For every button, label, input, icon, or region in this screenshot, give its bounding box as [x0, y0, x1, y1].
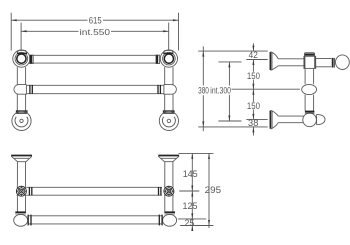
svg-text:125: 125 [183, 201, 198, 212]
svg-text:380: 380 [198, 86, 209, 97]
svg-text:615: 615 [89, 15, 102, 26]
svg-text:25: 25 [185, 218, 195, 229]
svg-text:int.550: int.550 [80, 27, 111, 37]
svg-text:145: 145 [183, 169, 198, 180]
svg-text:150: 150 [247, 71, 260, 82]
svg-text:42: 42 [249, 50, 258, 61]
svg-text:38: 38 [248, 118, 258, 129]
svg-text:int.300: int.300 [210, 86, 231, 97]
svg-text:295: 295 [205, 185, 222, 196]
svg-text:150: 150 [247, 101, 260, 112]
